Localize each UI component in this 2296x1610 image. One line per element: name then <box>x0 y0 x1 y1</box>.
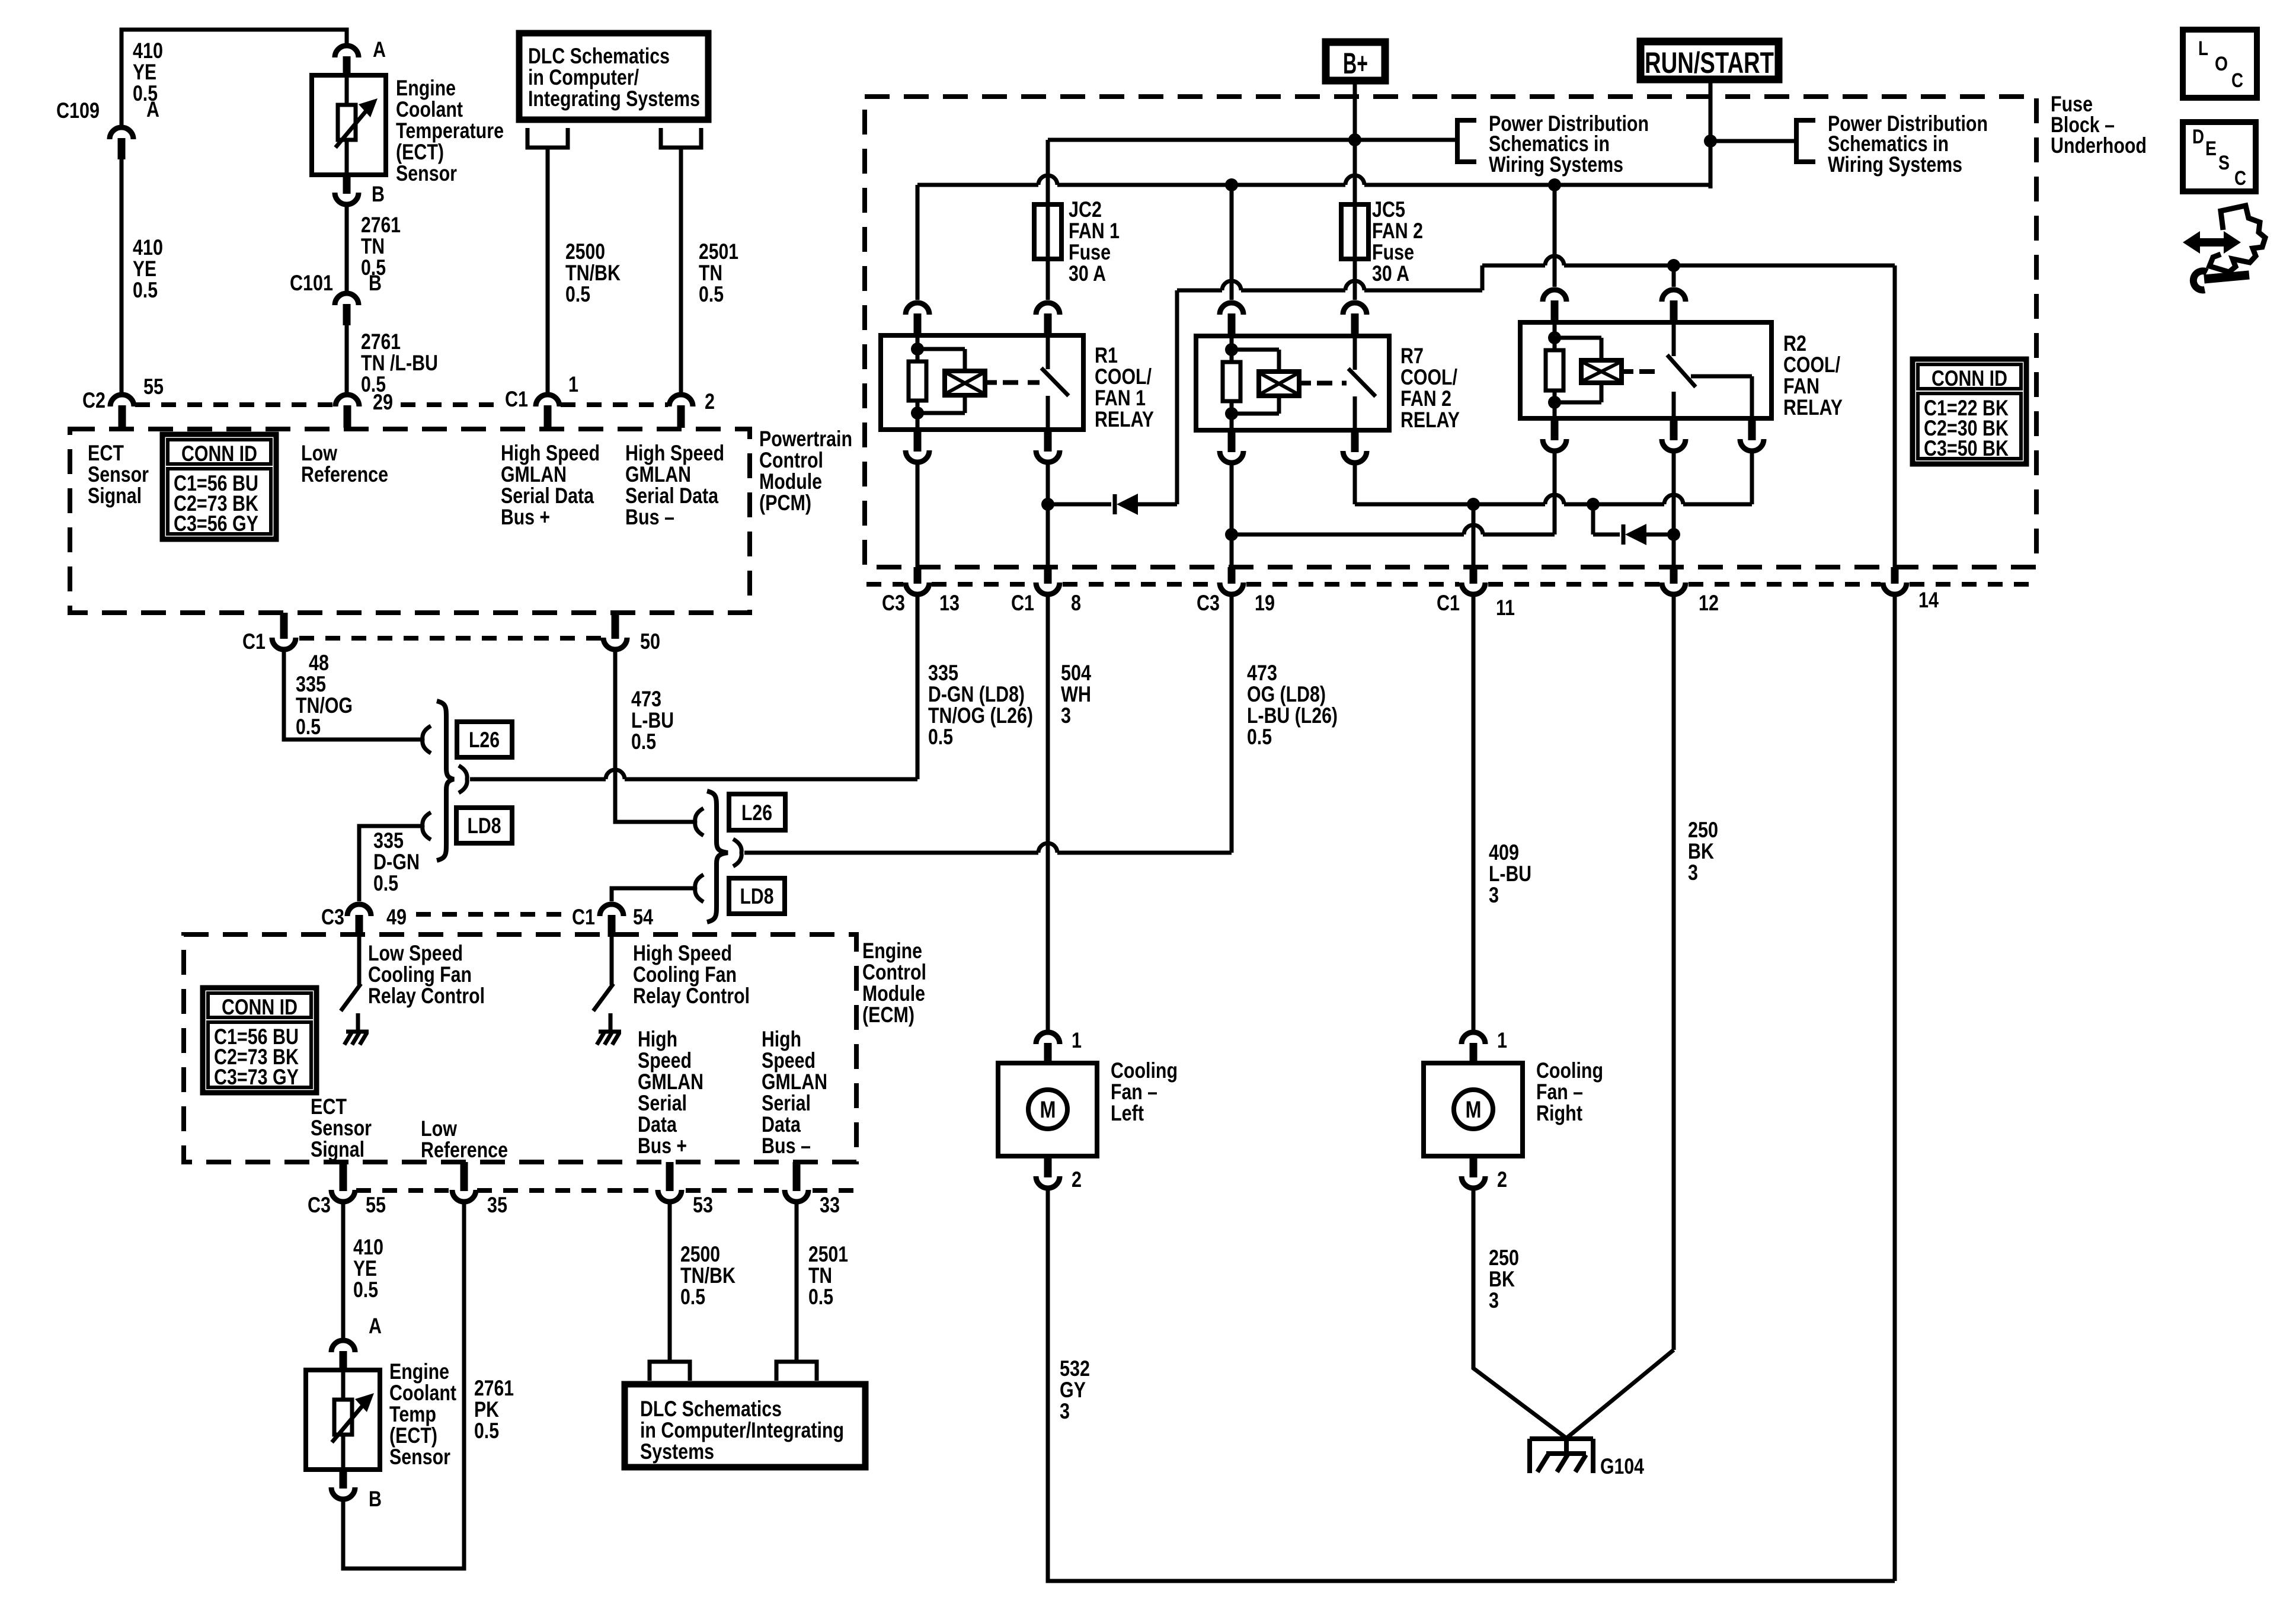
svg-text:35: 35 <box>487 1193 507 1217</box>
svg-text:PK: PK <box>474 1397 499 1422</box>
svg-text:30 A: 30 A <box>1372 261 1409 286</box>
svg-text:Fan –: Fan – <box>1111 1080 1157 1104</box>
svg-text:(PCM): (PCM) <box>759 491 811 515</box>
svg-text:Reference: Reference <box>301 462 388 486</box>
svg-text:Module: Module <box>862 981 925 1006</box>
svg-text:Low: Low <box>421 1116 457 1141</box>
svg-text:3: 3 <box>1060 1399 1070 1423</box>
svg-text:O: O <box>2215 53 2228 75</box>
svg-text:TN /L-BU: TN /L-BU <box>361 351 438 375</box>
svg-text:C3=50 BK: C3=50 BK <box>1924 436 2009 460</box>
svg-text:0.5: 0.5 <box>631 729 656 754</box>
svg-text:3: 3 <box>1489 883 1499 907</box>
svg-text:0.5: 0.5 <box>928 725 953 749</box>
svg-text:Signal: Signal <box>311 1137 364 1161</box>
svg-text:TN/BK: TN/BK <box>565 261 621 285</box>
svg-text:Low: Low <box>301 441 337 465</box>
svg-text:E: E <box>2205 137 2217 160</box>
svg-text:CONN ID: CONN ID <box>1932 366 2007 391</box>
svg-text:R1: R1 <box>1095 343 1118 367</box>
svg-text:0.5: 0.5 <box>373 871 398 895</box>
svg-text:FAN 1: FAN 1 <box>1095 386 1146 410</box>
svg-text:Engine: Engine <box>389 1359 449 1384</box>
svg-text:High Speed: High Speed <box>633 941 732 965</box>
svg-text:Data: Data <box>638 1112 677 1137</box>
svg-text:Sensor: Sensor <box>396 161 457 185</box>
svg-text:FAN 2: FAN 2 <box>1400 386 1451 411</box>
svg-text:2: 2 <box>705 389 715 414</box>
svg-text:Module: Module <box>759 469 822 494</box>
svg-text:Coolant: Coolant <box>396 97 463 121</box>
svg-text:B: B <box>369 271 382 295</box>
svg-text:409: 409 <box>1489 840 1519 865</box>
svg-text:55: 55 <box>143 375 164 399</box>
svg-text:(ECM): (ECM) <box>862 1003 914 1027</box>
svg-text:GMLAN: GMLAN <box>762 1070 827 1094</box>
svg-text:COOL/: COOL/ <box>1095 364 1152 389</box>
svg-text:D: D <box>2192 126 2204 148</box>
svg-text:COOL/: COOL/ <box>1783 353 1840 377</box>
svg-text:Cooling: Cooling <box>1536 1058 1603 1083</box>
svg-text:C1: C1 <box>1011 591 1034 615</box>
svg-text:3: 3 <box>1061 703 1071 728</box>
svg-text:L: L <box>2198 37 2208 60</box>
svg-text:C2: C2 <box>82 388 105 412</box>
svg-text:TN/OG: TN/OG <box>296 693 353 718</box>
svg-text:COOL/: COOL/ <box>1400 365 1457 389</box>
svg-text:Cooling Fan: Cooling Fan <box>368 962 472 987</box>
svg-text:D-GN (LD8): D-GN (LD8) <box>928 682 1025 706</box>
svg-text:R7: R7 <box>1400 344 1424 368</box>
svg-text:C1: C1 <box>242 629 266 654</box>
svg-text:53: 53 <box>693 1193 713 1217</box>
svg-text:Fan –: Fan – <box>1536 1080 1583 1104</box>
svg-text:G104: G104 <box>1600 1454 1644 1478</box>
svg-text:50: 50 <box>640 629 660 654</box>
svg-text:2501: 2501 <box>808 1242 848 1266</box>
svg-text:1: 1 <box>568 372 578 396</box>
svg-text:TN/OG (L26): TN/OG (L26) <box>928 703 1033 728</box>
svg-text:0.5: 0.5 <box>1247 725 1272 749</box>
svg-text:29: 29 <box>373 390 393 414</box>
svg-text:48: 48 <box>309 651 329 675</box>
svg-text:WH: WH <box>1061 682 1091 706</box>
svg-text:0.5: 0.5 <box>133 278 158 302</box>
svg-text:Speed: Speed <box>638 1048 692 1073</box>
svg-text:TN: TN <box>808 1263 832 1288</box>
svg-text:0.5: 0.5 <box>699 282 724 306</box>
svg-text:Engine: Engine <box>862 939 922 963</box>
svg-text:(ECT): (ECT) <box>396 140 444 164</box>
svg-text:14: 14 <box>1918 588 1939 612</box>
svg-text:YE: YE <box>133 60 156 84</box>
svg-text:C: C <box>2234 167 2246 190</box>
svg-text:0.5: 0.5 <box>680 1285 705 1309</box>
svg-text:Systems: Systems <box>640 1439 714 1464</box>
svg-text:0.5: 0.5 <box>474 1419 499 1443</box>
svg-text:1: 1 <box>1497 1028 1507 1052</box>
svg-text:Sensor: Sensor <box>311 1116 372 1140</box>
svg-text:S: S <box>2218 152 2230 174</box>
svg-text:0.5: 0.5 <box>296 715 321 739</box>
svg-text:Powertrain: Powertrain <box>759 427 852 451</box>
svg-text:A: A <box>373 37 386 62</box>
svg-text:A: A <box>369 1314 382 1338</box>
svg-text:19: 19 <box>1255 591 1275 615</box>
svg-text:Cooling: Cooling <box>1111 1058 1178 1083</box>
svg-text:(ECT): (ECT) <box>389 1423 437 1448</box>
svg-text:B: B <box>369 1487 382 1511</box>
svg-text:2761: 2761 <box>474 1376 514 1400</box>
svg-text:GMLAN: GMLAN <box>638 1070 703 1094</box>
svg-text:2501: 2501 <box>699 239 738 264</box>
svg-text:in Computer/: in Computer/ <box>528 65 639 89</box>
svg-text:Temp: Temp <box>389 1402 436 1426</box>
svg-text:410: 410 <box>353 1235 383 1259</box>
svg-text:C1: C1 <box>505 387 528 411</box>
svg-text:2761: 2761 <box>361 213 401 237</box>
svg-text:0.5: 0.5 <box>565 282 590 306</box>
svg-text:Fuse: Fuse <box>1069 240 1111 264</box>
svg-text:CONN ID: CONN ID <box>222 995 298 1019</box>
svg-text:M: M <box>1466 1097 1482 1123</box>
svg-text:L-BU: L-BU <box>1489 862 1531 886</box>
svg-text:C3: C3 <box>1197 591 1220 615</box>
svg-text:TN: TN <box>361 234 385 258</box>
svg-text:JC5: JC5 <box>1372 197 1405 222</box>
svg-text:250: 250 <box>1489 1246 1519 1270</box>
svg-text:33: 33 <box>820 1193 840 1217</box>
svg-text:473: 473 <box>631 687 661 711</box>
svg-text:Bus –: Bus – <box>625 505 674 529</box>
svg-text:GMLAN: GMLAN <box>501 462 567 486</box>
svg-text:GY: GY <box>1060 1378 1086 1402</box>
svg-text:RELAY: RELAY <box>1095 407 1154 431</box>
svg-text:LD8: LD8 <box>468 814 501 838</box>
svg-text:250: 250 <box>1688 818 1718 842</box>
svg-text:30 A: 30 A <box>1069 261 1106 286</box>
svg-text:Fuse: Fuse <box>1372 240 1414 264</box>
svg-text:TN/BK: TN/BK <box>680 1263 736 1288</box>
svg-text:DLC Schematics: DLC Schematics <box>640 1397 782 1421</box>
svg-text:B+: B+ <box>1343 47 1368 80</box>
svg-text:Left: Left <box>1111 1101 1144 1125</box>
svg-text:FAN 1: FAN 1 <box>1069 219 1120 243</box>
svg-text:3: 3 <box>1489 1288 1499 1313</box>
svg-text:Bus +: Bus + <box>638 1134 687 1158</box>
svg-text:C: C <box>2231 69 2243 92</box>
svg-text:Coolant: Coolant <box>389 1381 456 1405</box>
svg-text:High: High <box>762 1027 801 1051</box>
svg-text:Bus –: Bus – <box>762 1134 811 1158</box>
svg-text:335: 335 <box>928 661 958 685</box>
svg-text:Speed: Speed <box>762 1048 816 1073</box>
svg-text:Wiring Systems: Wiring Systems <box>1489 152 1623 177</box>
svg-text:11: 11 <box>1496 596 1515 620</box>
svg-text:Serial: Serial <box>638 1091 687 1115</box>
svg-text:OG (LD8): OG (LD8) <box>1247 682 1326 706</box>
svg-text:Sensor: Sensor <box>88 462 149 486</box>
svg-text:ECT: ECT <box>88 441 124 465</box>
svg-text:Serial: Serial <box>762 1091 811 1115</box>
svg-text:L-BU: L-BU <box>631 708 674 732</box>
svg-text:410: 410 <box>133 39 163 63</box>
svg-text:High Speed: High Speed <box>625 441 724 465</box>
svg-text:YE: YE <box>353 1256 377 1281</box>
svg-text:Temperature: Temperature <box>396 119 504 143</box>
svg-text:13: 13 <box>939 591 960 615</box>
svg-text:GMLAN: GMLAN <box>625 462 691 486</box>
svg-text:C101: C101 <box>290 271 333 295</box>
svg-text:0.5: 0.5 <box>808 1285 833 1309</box>
svg-text:C1: C1 <box>1437 591 1460 615</box>
svg-text:3: 3 <box>1688 860 1698 885</box>
svg-text:2500: 2500 <box>565 239 605 264</box>
svg-text:335: 335 <box>373 828 404 853</box>
svg-text:in Computer/Integrating: in Computer/Integrating <box>640 1418 844 1442</box>
svg-text:C1: C1 <box>572 905 595 929</box>
svg-text:L26: L26 <box>469 728 500 752</box>
svg-text:YE: YE <box>133 257 156 281</box>
svg-text:Control: Control <box>759 448 823 472</box>
svg-text:Wiring Systems: Wiring Systems <box>1828 152 1962 177</box>
svg-text:RUN/START: RUN/START <box>1645 46 1774 79</box>
svg-text:Control: Control <box>862 960 926 984</box>
svg-text:RELAY: RELAY <box>1783 395 1843 420</box>
svg-text:Bus +: Bus + <box>501 505 550 529</box>
svg-text:C3: C3 <box>308 1193 331 1217</box>
svg-text:Right: Right <box>1536 1101 1582 1125</box>
svg-text:C3=56 GY: C3=56 GY <box>174 511 258 536</box>
svg-text:B: B <box>372 182 385 206</box>
svg-text:RELAY: RELAY <box>1400 408 1460 432</box>
svg-text:C3: C3 <box>882 591 905 615</box>
svg-text:D-GN: D-GN <box>373 850 420 874</box>
svg-text:Engine: Engine <box>396 76 456 100</box>
svg-text:Serial Data: Serial Data <box>501 484 594 508</box>
svg-text:2761: 2761 <box>361 329 401 354</box>
svg-text:473: 473 <box>1247 661 1277 685</box>
svg-text:Sensor: Sensor <box>389 1445 450 1469</box>
svg-text:L-BU (L26): L-BU (L26) <box>1247 703 1338 728</box>
svg-text:Relay Control: Relay Control <box>368 984 485 1008</box>
svg-text:BK: BK <box>1489 1267 1515 1291</box>
svg-text:0.5: 0.5 <box>353 1278 378 1302</box>
svg-text:JC2: JC2 <box>1069 197 1102 222</box>
svg-text:BK: BK <box>1688 839 1714 863</box>
svg-text:49: 49 <box>386 905 407 929</box>
svg-text:Integrating Systems: Integrating Systems <box>528 87 700 111</box>
svg-text:LD8: LD8 <box>740 884 774 908</box>
svg-text:410: 410 <box>133 235 163 260</box>
svg-text:2500: 2500 <box>680 1242 720 1266</box>
svg-text:C3=73 GY: C3=73 GY <box>214 1065 299 1089</box>
svg-text:Serial Data: Serial Data <box>625 484 718 508</box>
svg-text:2: 2 <box>1072 1167 1082 1192</box>
svg-text:FAN 2: FAN 2 <box>1372 219 1423 243</box>
svg-text:54: 54 <box>633 905 653 929</box>
svg-text:FAN: FAN <box>1783 374 1819 398</box>
svg-text:C3: C3 <box>321 905 344 929</box>
svg-text:R2: R2 <box>1783 331 1806 356</box>
svg-text:Underhood: Underhood <box>2051 133 2147 158</box>
svg-text:A: A <box>146 97 159 121</box>
svg-text:ECT: ECT <box>311 1094 347 1119</box>
svg-text:Low Speed: Low Speed <box>368 941 463 965</box>
svg-text:55: 55 <box>366 1193 386 1217</box>
svg-text:High: High <box>638 1027 677 1051</box>
svg-text:TN: TN <box>699 261 722 285</box>
svg-text:Reference: Reference <box>421 1138 508 1162</box>
svg-text:C109: C109 <box>56 98 100 123</box>
svg-text:M: M <box>1040 1097 1056 1123</box>
svg-text:12: 12 <box>1699 591 1719 615</box>
svg-text:L26: L26 <box>741 801 772 825</box>
svg-text:Data: Data <box>762 1112 801 1137</box>
svg-text:High Speed: High Speed <box>501 441 600 465</box>
svg-text:Cooling Fan: Cooling Fan <box>633 962 737 987</box>
svg-text:Signal: Signal <box>88 484 142 508</box>
svg-text:504: 504 <box>1061 661 1091 685</box>
svg-text:8: 8 <box>1071 591 1081 615</box>
svg-text:DLC Schematics: DLC Schematics <box>528 44 670 68</box>
svg-text:2: 2 <box>1497 1167 1507 1192</box>
svg-text:CONN ID: CONN ID <box>181 441 257 466</box>
svg-text:335: 335 <box>296 672 326 696</box>
svg-text:1: 1 <box>1072 1028 1082 1052</box>
svg-text:532: 532 <box>1060 1356 1090 1381</box>
svg-text:Relay Control: Relay Control <box>633 984 750 1008</box>
